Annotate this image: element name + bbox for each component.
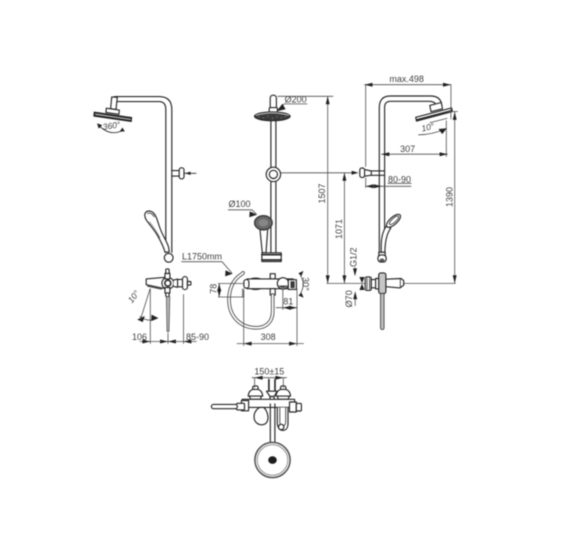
- svg-text:max.498: max.498: [389, 74, 424, 84]
- svg-text:106: 106: [132, 332, 147, 342]
- svg-text:10°: 10°: [126, 288, 142, 305]
- svg-text:308: 308: [261, 332, 276, 342]
- svg-text:L1750mm: L1750mm: [182, 252, 222, 262]
- svg-text:1071: 1071: [334, 219, 344, 239]
- svg-text:81: 81: [283, 297, 293, 307]
- svg-text:80-90: 80-90: [388, 174, 411, 184]
- svg-text:85-90: 85-90: [186, 332, 209, 342]
- svg-text:Ø100: Ø100: [228, 199, 250, 209]
- svg-text:1390: 1390: [444, 187, 454, 207]
- svg-text:78: 78: [208, 284, 218, 294]
- svg-text:307: 307: [400, 144, 415, 154]
- svg-text:Ø70: Ø70: [344, 290, 354, 307]
- svg-text:Ø200: Ø200: [285, 94, 307, 104]
- svg-text:1507: 1507: [317, 183, 327, 203]
- svg-text:10°: 10°: [420, 121, 435, 134]
- svg-text:G1/2: G1/2: [349, 247, 359, 267]
- svg-text:360°: 360°: [102, 119, 122, 132]
- svg-text:30°: 30°: [301, 277, 311, 291]
- svg-text:150±15: 150±15: [254, 367, 284, 377]
